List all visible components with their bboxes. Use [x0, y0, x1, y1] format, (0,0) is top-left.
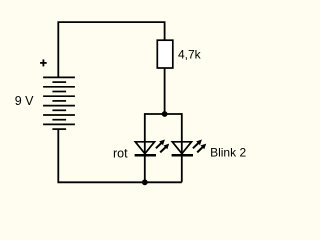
- battery B1: short plate 1: [52, 81, 66, 83]
- wire right LED branch: [181, 113, 183, 182]
- junction node B: [142, 179, 148, 185]
- resistor R1 4,7k: [157, 40, 173, 68]
- junction node A: [162, 111, 168, 117]
- battery B1: plus sign: [40, 59, 47, 66]
- LED D2 Blink 2: cathode bar: [172, 154, 193, 157]
- wire top rail between LED branches: [145, 113, 182, 115]
- svg-text:Blink 2: Blink 2: [210, 145, 246, 159]
- svg-text:4,7k: 4,7k: [178, 47, 202, 61]
- wire battery plus terminal up and across to resistor top: [58, 22, 164, 78]
- battery B1: short plate 6: [52, 128, 66, 130]
- battery B1: short plate 4: [52, 109, 66, 111]
- battery B1: short plate 3: [52, 100, 66, 102]
- LED D1 rot: cathode bar: [135, 154, 156, 157]
- battery B1: long plate 4: [43, 105, 75, 107]
- LED D1 rot: triangle: [135, 142, 154, 154]
- battery B1: short plate 2: [52, 91, 66, 93]
- battery B1: long plate 1: [43, 76, 75, 78]
- LED D2 Blink 2: light arrow 1: [193, 140, 202, 149]
- svg-text:9 V: 9 V: [15, 94, 34, 108]
- LED D1 rot: light arrow 1: [156, 140, 165, 149]
- LED D2 Blink 2: triangle: [172, 142, 191, 154]
- battery B1: short plate 5: [52, 119, 66, 121]
- battery B1: long plate 2: [43, 86, 75, 88]
- wire left LED branch: [144, 113, 146, 182]
- wire resistor bottom to node A: [164, 68, 166, 114]
- battery B1: long plate 6: [43, 123, 75, 125]
- svg-text:rot: rot: [113, 146, 128, 160]
- battery B1: long plate 3: [43, 95, 75, 97]
- wire battery minus terminal down and across bottom rail: [58, 129, 182, 182]
- battery B1: long plate 5: [43, 114, 75, 116]
- LED D2 Blink 2: light arrow 2: [197, 144, 206, 153]
- LED D1 rot: light arrow 2: [160, 144, 169, 153]
